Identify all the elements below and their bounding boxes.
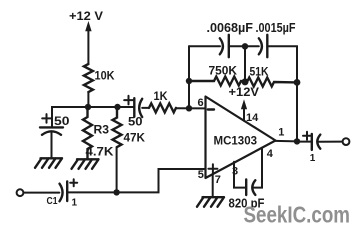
pin 3 lead and wire to 820pF bbox=[234, 162, 246, 188]
wire: 1K to op-amp pin 6 bbox=[176, 107, 206, 109]
svg-text:+12 V: +12 V bbox=[69, 9, 103, 23]
svg-text:4: 4 bbox=[267, 148, 274, 160]
svg-text:1: 1 bbox=[72, 198, 78, 209]
wire: feedback left vertical bbox=[188, 46, 190, 108]
svg-text:.0068µF: .0068µF bbox=[207, 21, 254, 35]
power +12V arrow into pin 14 bbox=[241, 99, 247, 121]
capacitor 50uF bypass (left) bbox=[40, 127, 63, 134]
svg-text:4.7K: 4.7K bbox=[86, 145, 114, 159]
op-amp U1 MC1303 triangle bbox=[206, 97, 276, 179]
wire: bottom rail from C1 with step up to pin 5 bbox=[67, 169, 205, 192]
input terminal bbox=[17, 189, 24, 196]
svg-text:1: 1 bbox=[310, 153, 316, 164]
svg-text:C1: C1 bbox=[47, 195, 58, 207]
wire: 10K bottom lead to bus bbox=[87, 92, 89, 107]
label + (left 50uF) bbox=[42, 114, 51, 123]
junction dot 47K on bus bbox=[114, 104, 120, 110]
svg-text:50: 50 bbox=[54, 114, 70, 128]
junction dot output node bbox=[294, 138, 300, 144]
ground under 50uF cap bbox=[35, 158, 62, 168]
svg-text:50: 50 bbox=[128, 115, 143, 129]
wire: output from pin 1 bbox=[276, 140, 298, 143]
svg-text:51K: 51K bbox=[250, 65, 269, 79]
resistor R3 4.7K bbox=[83, 107, 92, 159]
resistor 51K bbox=[245, 78, 297, 87]
ground at pin 7 bbox=[197, 197, 224, 207]
junction dot between top caps bbox=[242, 43, 248, 49]
svg-text:750K: 750K bbox=[209, 64, 238, 78]
wire: top caps junction down to resistor junction bbox=[244, 46, 246, 82]
capacitor C1 1uF input bbox=[60, 181, 68, 201]
svg-text:+12V: +12V bbox=[229, 85, 260, 99]
wire: top feedback right segment with corner down to output node bbox=[267, 46, 297, 141]
capacitor 820pF bbox=[246, 180, 255, 196]
capacitor 50uF series coupling bbox=[134, 98, 142, 117]
label + (C1) bbox=[70, 179, 77, 186]
junction dot feedback left mid (750K tap) bbox=[186, 78, 192, 84]
svg-text:SeekIC.com: SeekIC.com bbox=[244, 202, 351, 228]
wire: output node to output cap bbox=[297, 141, 312, 143]
svg-text:5: 5 bbox=[198, 169, 204, 181]
svg-text:1: 1 bbox=[278, 127, 284, 139]
svg-text:10K: 10K bbox=[95, 69, 115, 83]
svg-text:6: 6 bbox=[198, 97, 204, 109]
svg-text:1K: 1K bbox=[154, 91, 169, 103]
capacitor .0068uF bbox=[220, 35, 229, 57]
resistor 750K bbox=[189, 77, 245, 86]
label + (series 50uF) bbox=[124, 96, 133, 105]
junction dot 750K/51K bbox=[242, 78, 249, 85]
capacitor 1uF output bbox=[312, 134, 321, 150]
wire: series cap to 1K bbox=[142, 107, 149, 109]
wire: top feedback left segment bbox=[189, 45, 220, 47]
resistor 1K bbox=[149, 103, 176, 112]
junction dot 51K right / feedback vertical bbox=[294, 79, 301, 86]
op-amp non-inverting input marker bbox=[208, 164, 217, 173]
junction dot feedback at pin-6 wire bbox=[186, 105, 192, 111]
output terminal bbox=[343, 138, 350, 145]
power +12V supply arrow (top left) bbox=[85, 21, 91, 64]
op-amp inverting input marker bbox=[208, 108, 214, 110]
wire between top caps bbox=[229, 45, 259, 47]
ground under R3 bbox=[72, 159, 99, 169]
wire: left bus with corner down to +50 cap bbox=[52, 107, 134, 127]
junction dot 10K/R3 on bus bbox=[85, 104, 91, 110]
junction dot bottom rail / 47K bbox=[113, 189, 119, 195]
label + (output cap) bbox=[303, 132, 311, 140]
wire: output cap to terminal bbox=[319, 141, 343, 143]
svg-text:R3: R3 bbox=[94, 123, 110, 137]
svg-text:7: 7 bbox=[215, 174, 221, 186]
svg-text:3: 3 bbox=[232, 166, 238, 178]
svg-text:MC1303: MC1303 bbox=[214, 134, 258, 148]
capacitor .0015uF bbox=[259, 35, 268, 57]
wire: input terminal to C1 bbox=[24, 192, 60, 194]
svg-text:14: 14 bbox=[246, 112, 259, 124]
svg-text:.0015µF: .0015µF bbox=[256, 21, 296, 35]
wire: 820pF to pin 4 lead bbox=[254, 148, 262, 188]
resistor 10K bbox=[84, 64, 93, 92]
pin 7 lead bbox=[212, 174, 214, 197]
resistor 47K bbox=[113, 107, 122, 147]
wire: 50uF cap to ground bbox=[51, 133, 53, 159]
svg-text:47K: 47K bbox=[124, 131, 146, 145]
wire: 47K bottom lead to bottom rail bbox=[116, 147, 118, 192]
